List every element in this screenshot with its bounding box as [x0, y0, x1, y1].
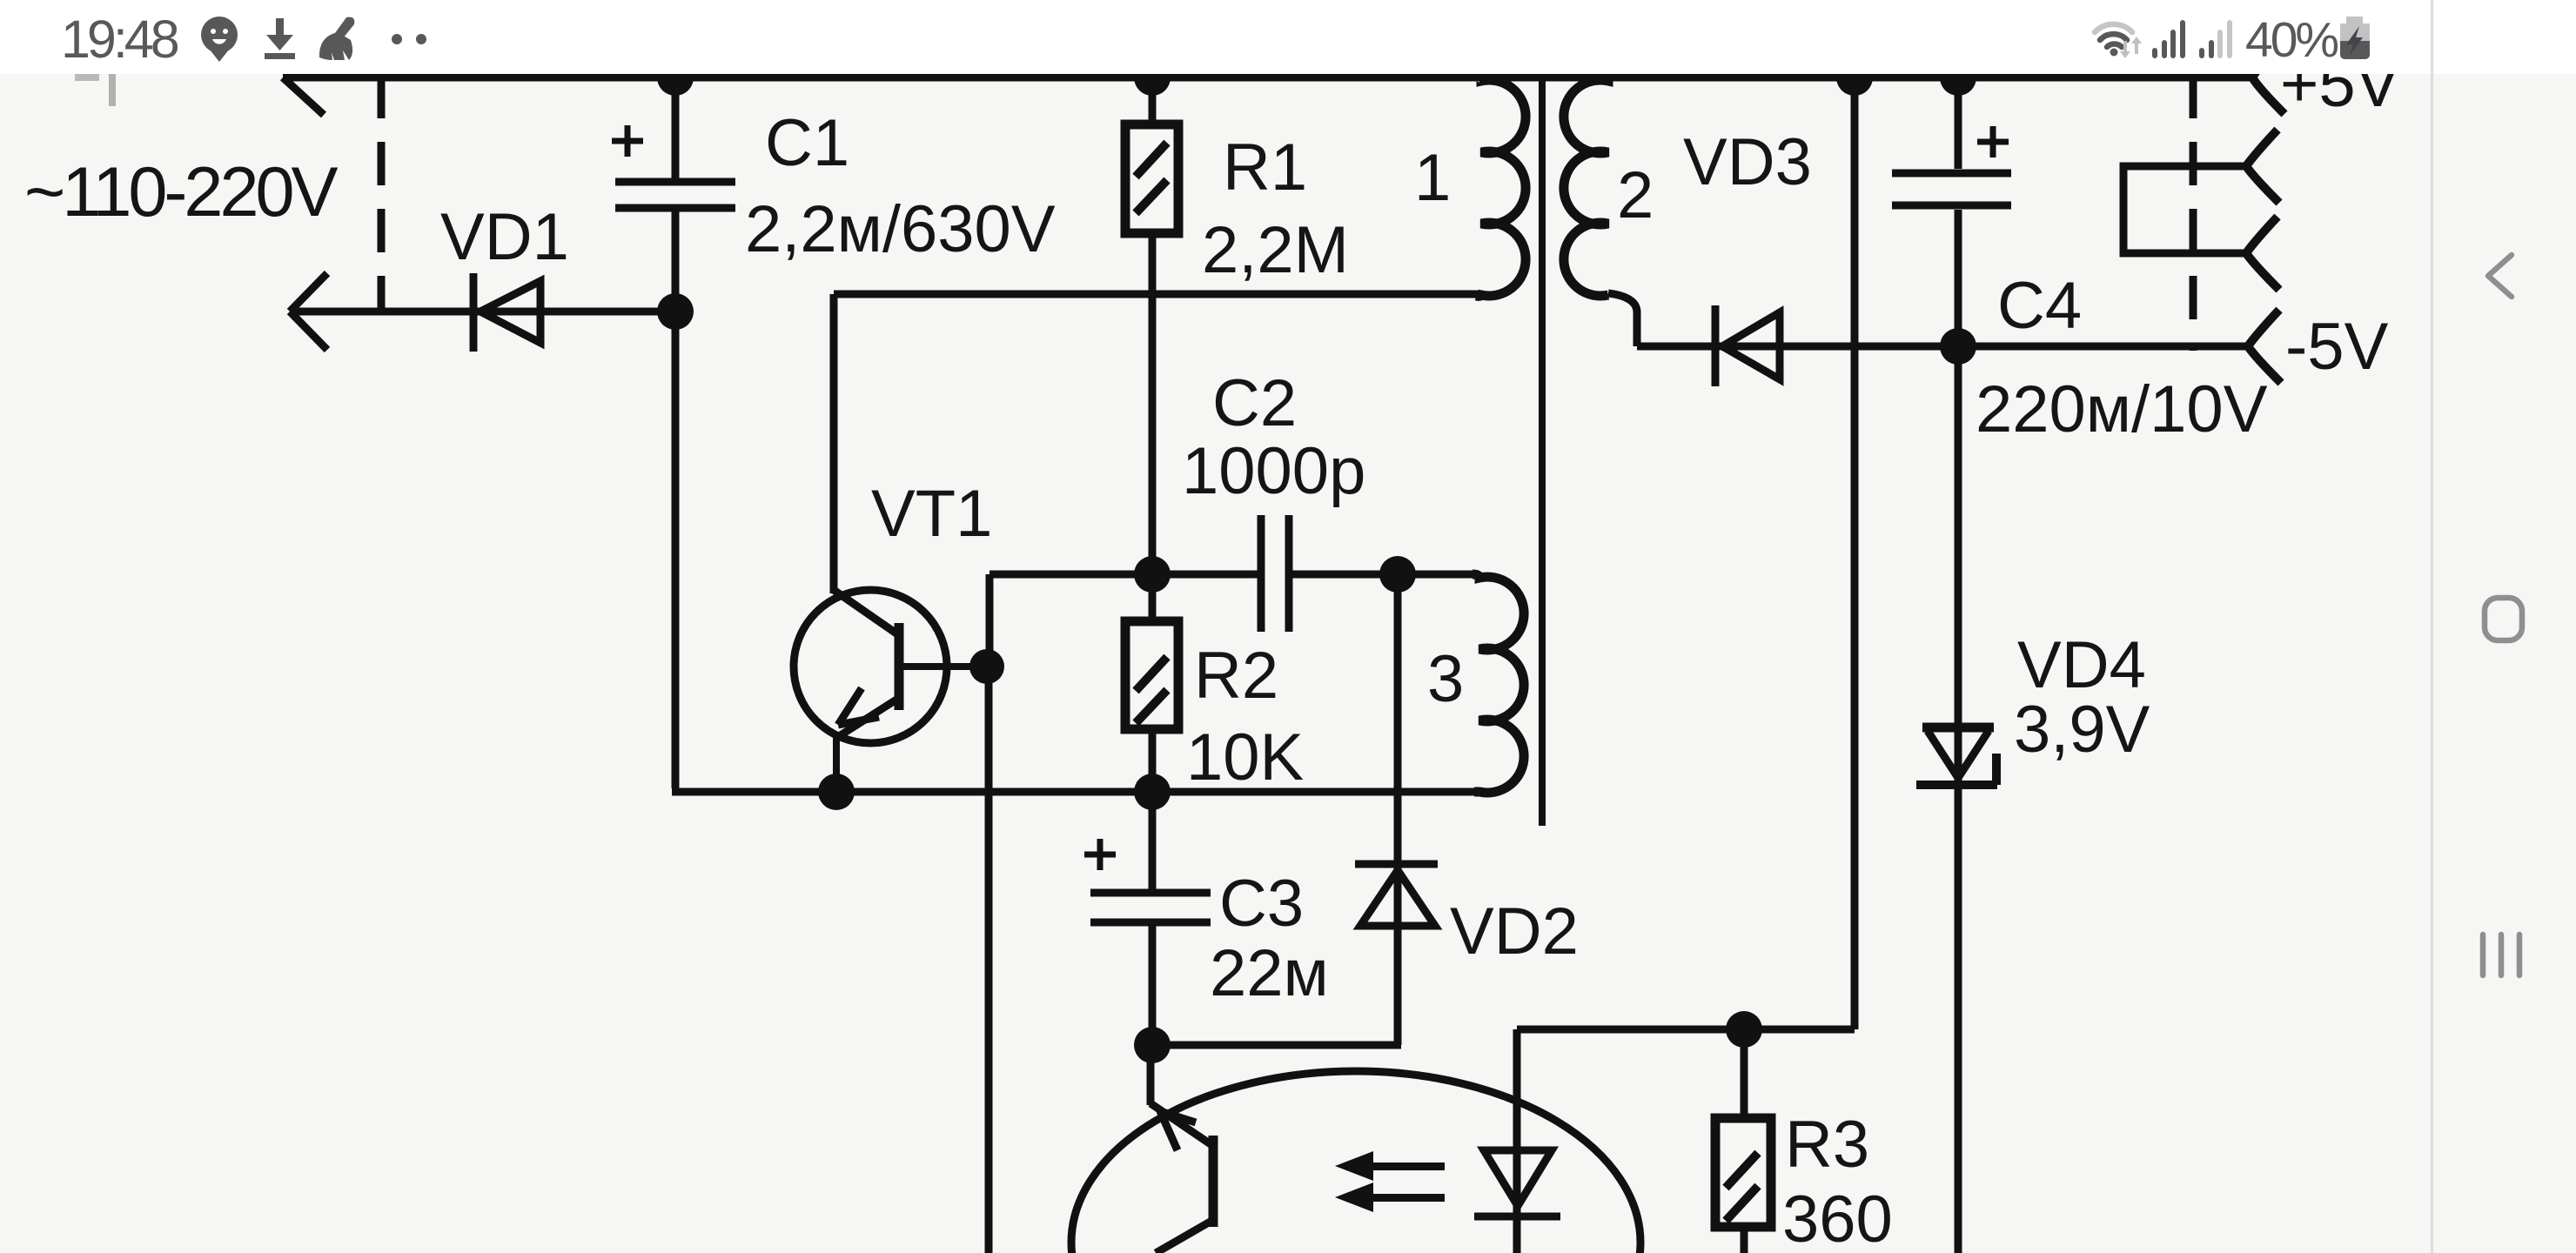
svg-text:1000p: 1000p [1182, 434, 1365, 508]
wire: emitter bus [672, 788, 1483, 796]
diode VD1 [473, 273, 540, 352]
svg-text:220м/10V: 220м/10V [1976, 372, 2268, 446]
nav separator line [2431, 0, 2433, 1253]
node: VT1 base junction [969, 649, 1004, 684]
wifi up/down tiny arrows [2120, 37, 2142, 58]
connector pin chevron mid1 [2246, 130, 2279, 203]
wire: C4 bottom lead to -5V node [1955, 210, 1962, 346]
signal bars SIM2 [2199, 20, 2232, 58]
wire: R3 top lead [1741, 1029, 1748, 1116]
resistor R1 [1125, 124, 1178, 233]
svg-text:VT1: VT1 [871, 477, 992, 551]
zener diode VD4 [1916, 727, 1997, 785]
wire: VD3 node feedback line down and across to optocoupler LED [1517, 77, 1855, 1253]
wire: VT1 collector riser and link to winding 1 bottom [834, 294, 1479, 593]
svg-text:1: 1 [1414, 141, 1451, 215]
wire: R2 leads [1149, 574, 1157, 792]
resistor R2 [1125, 621, 1178, 729]
transformer winding 3 [1472, 574, 1524, 793]
svg-text:C1: C1 [765, 106, 849, 180]
node: VD1/C1 junction [657, 293, 694, 330]
wire: node B row (VT1 base corner to C2, C2 to winding 3) [989, 571, 1472, 579]
nav back chevron [2488, 255, 2512, 297]
wire: VT1 base corner riser [986, 574, 994, 667]
svg-text:VD3: VD3 [1683, 125, 1812, 199]
capacitor C2 [1261, 515, 1289, 632]
svg-text:R3: R3 [1785, 1108, 1869, 1182]
node C: C2/winding3 junction [1379, 556, 1416, 593]
node: C4 top [1940, 59, 1976, 96]
wifi icon [2095, 24, 2132, 47]
capacitor C1 [612, 125, 735, 208]
node B: R1/R2/C2 junction [1134, 556, 1171, 593]
resistor R3 [1715, 1118, 1771, 1227]
node: C1 top [657, 59, 694, 96]
battery icon [2340, 17, 2370, 59]
capacitor C3 [1084, 839, 1211, 922]
signal bars SIM1 [2152, 20, 2185, 58]
node: feedback line top [1836, 59, 1873, 96]
NAV BAR (right side) [2483, 255, 2522, 975]
transformer winding 1 [1476, 77, 1526, 296]
svg-text:2,2м/630V: 2,2м/630V [745, 192, 1056, 266]
status bar background [0, 0, 2576, 74]
notification icon: location pin with face [201, 17, 238, 62]
node: R1 top [1134, 59, 1171, 96]
svg-text:22м: 22м [1210, 936, 1329, 1010]
output connector bracket [2123, 166, 2246, 253]
wire: VD2 bottom corner to C3 node [1152, 1042, 1401, 1049]
svg-text:R1: R1 [1223, 131, 1307, 204]
node: C3/VD2/opto junction [1134, 1027, 1171, 1063]
svg-text:2,2M: 2,2M [1202, 213, 1349, 287]
svg-text:3: 3 [1427, 642, 1464, 716]
node: C4/-5V junction [1940, 328, 1976, 365]
wire: VT1 base to optocoupler collector line [985, 667, 993, 1253]
notification icon: broom/clean [319, 17, 354, 60]
wire: C3 bottom lead [1149, 926, 1157, 1045]
nav recents button [2483, 935, 2519, 975]
notification icon: download [265, 18, 295, 59]
svg-text:10K: 10K [1186, 720, 1304, 794]
svg-text:C2: C2 [1212, 366, 1297, 440]
connector pin chevron mid2 [2246, 217, 2279, 290]
optocoupler phototransistor [1150, 1103, 1213, 1253]
wire: R3 bottom lead [1741, 1228, 1748, 1253]
diode VD3 [1715, 305, 1780, 386]
wire: AC input lower wire [290, 308, 675, 316]
node: VT1 emitter on bus [818, 774, 855, 810]
wire: C3 node down to optocoupler emitter [1147, 1045, 1155, 1105]
svg-text:-5V: -5V [2285, 310, 2389, 384]
diode VD2 [1355, 864, 1438, 926]
svg-text:R2: R2 [1194, 639, 1278, 713]
node: R2 bottom on bus [1134, 774, 1171, 810]
svg-text:~110-220V: ~110-220V [24, 153, 339, 231]
notification dots [392, 34, 402, 44]
capacitor C4 [1892, 126, 2011, 205]
wire: C3 top lead [1149, 792, 1157, 889]
nav home button [2485, 598, 2522, 640]
transformer core [1539, 75, 1546, 826]
connector pin chevron +5V [2252, 41, 2284, 114]
wire: top rail [283, 74, 2252, 82]
dashed output connector line [2190, 75, 2197, 351]
optocoupler LED [1474, 1150, 1560, 1216]
svg-text:19:48: 19:48 [61, 10, 178, 69]
wire: node C down to VD2 [1394, 574, 1402, 1045]
svg-text:VD1: VD1 [440, 200, 569, 274]
optocoupler body ellipse [1071, 1071, 1640, 1253]
svg-text:2: 2 [1617, 158, 1654, 232]
dashed AC connector line [378, 75, 386, 312]
transistor VT1 [794, 590, 987, 794]
svg-text:C3: C3 [1219, 867, 1304, 941]
svg-text:VD2: VD2 [1450, 895, 1579, 968]
STATUS BAR [61, 10, 2370, 69]
wire: top rail arrow barb [283, 77, 324, 115]
svg-text:VD4: VD4 [2017, 628, 2146, 702]
svg-text:C4: C4 [1997, 269, 2082, 343]
wire: R1 top lead [1149, 77, 1157, 127]
wire: C1 vertical + down to emitter bus [672, 77, 680, 788]
wire: winding2 bottom jog to VD3 [1608, 293, 2248, 346]
transformer winding 2 [1564, 77, 1613, 296]
wire: C4 top lead [1955, 77, 1962, 169]
wire: R1 bottom lead down to node B [1149, 235, 1157, 573]
wire: AC arrow barbs [290, 273, 327, 350]
connector pin chevron -5V [2248, 310, 2281, 383]
optocoupler light arrows [1335, 1151, 1445, 1212]
crop artifact marks top-left [75, 74, 99, 81]
svg-text:360: 360 [1782, 1183, 1893, 1253]
svg-text:3,9V: 3,9V [2014, 693, 2150, 767]
wire: -5V node down through VD4 [1955, 346, 1962, 1253]
node: R3 top junction [1726, 1011, 1762, 1048]
svg-text:40%: 40% [2245, 12, 2338, 68]
